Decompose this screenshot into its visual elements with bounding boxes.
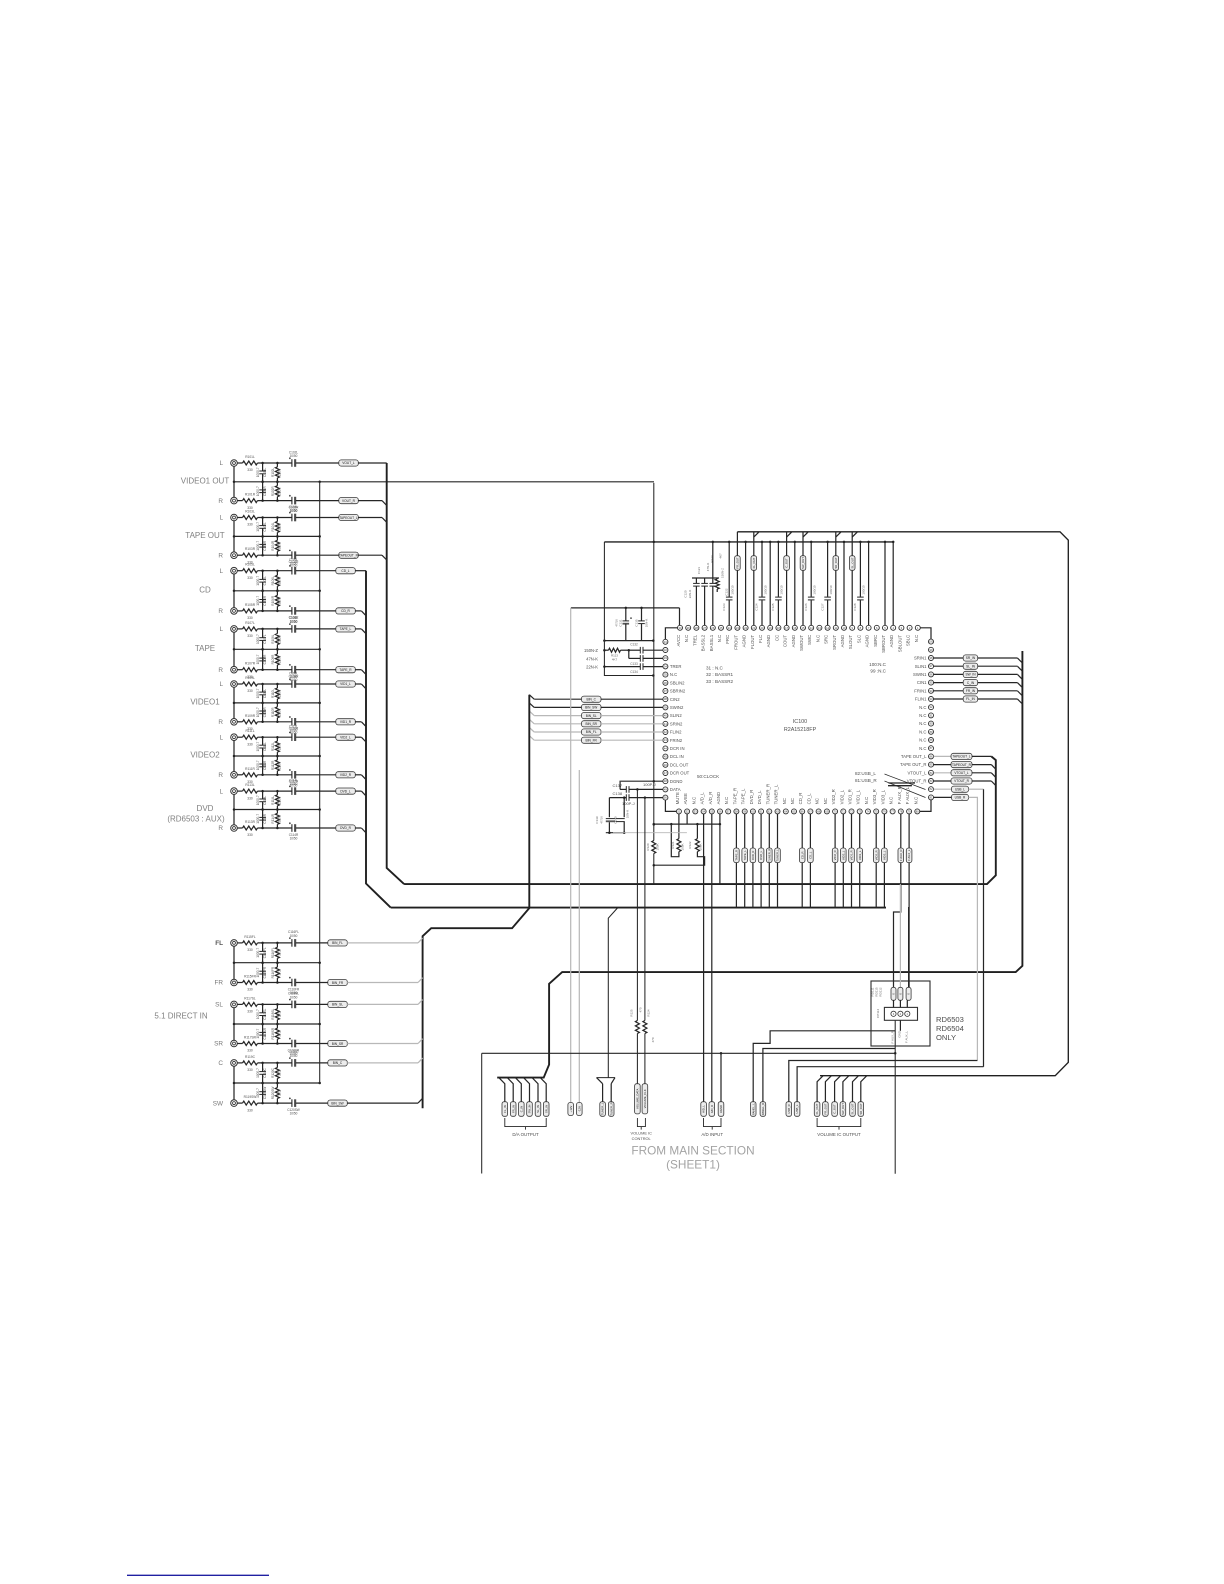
IC100 pin 2 (SBLC) — [906, 625, 913, 646]
wire bus hook IN1 row — [1018, 691, 1023, 696]
IC100 pin 98 (SRIN1) — [914, 656, 934, 661]
svg-text:FR_IN: FR_IN — [511, 1105, 515, 1113]
connector VIDEO2 L jack — [231, 725, 362, 758]
svg-text:330: 330 — [247, 689, 253, 693]
svg-text:R124: R124 — [647, 1009, 651, 1017]
svg-text:50:CLOCK: 50:CLOCK — [697, 774, 720, 779]
svg-text:C135: C135 — [634, 619, 638, 627]
svg-text:76: 76 — [883, 809, 886, 813]
svg-text:330: 330 — [247, 796, 253, 800]
IC100 pin 27 (BASSL2) — [701, 625, 708, 651]
svg-text:R: R — [218, 608, 223, 615]
svg-text:C114R: C114R — [289, 833, 299, 837]
IC100 pin 35 (N.C) — [663, 672, 677, 677]
leader line pin81 note — [885, 781, 926, 798]
svg-text:330: 330 — [247, 1108, 253, 1112]
svg-text:F AUX_R: F AUX_R — [897, 786, 902, 804]
svg-text:R104R: R104R — [271, 540, 275, 551]
svg-text:PANEL_R: PANEL_R — [761, 1103, 765, 1116]
IC100 pin 82 (n/a) — [929, 787, 934, 792]
svg-text:TREL: TREL — [692, 634, 697, 646]
svg-text:1000-7: 1000-7 — [256, 1009, 260, 1019]
IC100 pin 83 (VTOUT_R) — [907, 779, 934, 784]
capacitor C138 100P-J — [609, 791, 662, 806]
wire/net label BIN_SW to pin 39 — [529, 703, 663, 711]
svg-text:79: 79 — [908, 809, 911, 813]
ground box around left caps — [604, 542, 654, 677]
svg-text:74: 74 — [867, 809, 870, 813]
svg-text:AGND: AGND — [865, 635, 870, 648]
net label USB_R bottom — [786, 1061, 977, 1117]
svg-text:93: 93 — [930, 697, 933, 701]
svg-text:TAPEOUT_L: TAPEOUT_L — [339, 516, 358, 520]
svg-text:22N-K: 22N-K — [586, 665, 598, 670]
svg-text:R118SR: R118SR — [271, 1027, 275, 1039]
svg-text:100K: 100K — [680, 843, 684, 850]
svg-text:88: 88 — [930, 738, 933, 742]
svg-text:330: 330 — [247, 1010, 253, 1014]
svg-text:FROUT: FROUT — [733, 634, 738, 649]
svg-text:10/50: 10/50 — [290, 934, 298, 938]
svg-text:98: 98 — [930, 656, 933, 660]
group label 5.1 DIRECT IN — [154, 1012, 207, 1021]
svg-text:CD_L: CD_L — [806, 793, 811, 805]
svg-text:N.C: N.C — [889, 797, 894, 804]
svg-text:C117SL: C117SL — [263, 1008, 267, 1019]
svg-text:VOUT_R: VOUT_R — [342, 499, 356, 503]
svg-text:R101L: R101L — [245, 455, 255, 459]
svg-text:CD_L: CD_L — [341, 569, 349, 573]
svg-text:C103R: C103R — [263, 540, 267, 551]
svg-text:220K: 220K — [278, 541, 282, 549]
input group TAPE OUT — [185, 515, 225, 560]
svg-text:330: 330 — [247, 742, 253, 746]
connector VIDEO1 R jack — [231, 702, 362, 735]
wire bus hook 5.1 row — [418, 978, 423, 983]
wire bus hook VTOUT_R right — [991, 781, 996, 786]
svg-text:60: 60 — [751, 809, 754, 813]
wire VIDEO1 OUT jack sleeve link — [233, 466, 236, 497]
svg-text:99 :N.C: 99 :N.C — [870, 669, 886, 674]
svg-text:C120SW: C120SW — [287, 1108, 300, 1112]
svg-text:NC: NC — [815, 798, 820, 804]
IC100 pin 59 (TAPE_L) — [741, 788, 748, 814]
wire bus hook OUT pin — [787, 532, 792, 537]
IC100 pin 9 (SLOUT) — [848, 625, 855, 649]
svg-text:FL_IN: FL_IN — [966, 697, 975, 701]
svg-text:VID2_L: VID2_L — [340, 736, 351, 740]
svg-text:R105R: R105R — [245, 603, 256, 607]
resistor R122 100K — [653, 824, 705, 866]
svg-text:C125: C125 — [771, 603, 775, 611]
svg-text:54: 54 — [702, 809, 705, 813]
wire bus hook IN1 row — [1018, 699, 1023, 704]
svg-text:R115FR: R115FR — [244, 975, 257, 979]
svg-text:SLC: SLC — [856, 635, 861, 643]
net label SR_OUT (VOLUME IC OUTPUT) — [858, 1076, 867, 1117]
svg-text:N.C: N.C — [919, 721, 926, 726]
svg-text:1000-7: 1000-7 — [256, 654, 260, 664]
wire C137 corner — [619, 781, 622, 789]
svg-text:USB_R: USB_R — [955, 796, 966, 800]
net label VID2_R below IC — [832, 814, 838, 908]
net label SW_OUT (VOLUME IC OUTPUT) — [840, 1076, 849, 1117]
IC100 pin 24 (FRC) — [725, 625, 732, 643]
IC100 pin 74 (N.C) — [864, 797, 871, 814]
net label SL_OUT — [849, 556, 855, 571]
resistor R121 100K — [671, 824, 685, 857]
svg-text:RD6503: RD6503 — [936, 1015, 964, 1024]
svg-text:32: 32 — [664, 648, 667, 652]
wire AVCC net horizontal — [571, 607, 680, 626]
svg-text:VID3_L: VID3_L — [883, 850, 887, 860]
svg-text:L: L — [219, 515, 223, 522]
svg-text:SL: SL — [215, 1002, 223, 1009]
wire bus hook TAPEOUT_R — [382, 555, 387, 560]
svg-text:TAPE: TAPE — [195, 644, 215, 653]
IC100 pin 56 (AGND) — [716, 792, 723, 814]
svg-text:18: 18 — [777, 626, 780, 630]
svg-text:R106L: R106L — [271, 576, 275, 586]
svg-text:CIN2: CIN2 — [670, 697, 680, 702]
svg-text:62: 62 — [768, 809, 771, 813]
svg-text:81: 81 — [930, 795, 933, 799]
connector VIDEO1 L jack — [231, 671, 362, 704]
IC100 pin 11 (SROUT) — [832, 625, 839, 650]
IC100 pin 3 (SBLOUT) — [897, 625, 904, 652]
net label SR_IN right of IC — [934, 655, 1018, 661]
svg-text:58: 58 — [735, 809, 738, 813]
wire F AUX_L into jumper — [908, 907, 910, 987]
net label SL_OUT (VOLUME IC OUTPUT) — [850, 1076, 859, 1117]
svg-text:VOLUME_CLK: VOLUME_CLK — [643, 1089, 647, 1108]
text RD6503 RD6504 ONLY — [936, 1015, 964, 1042]
svg-text:R111L: R111L — [245, 729, 254, 733]
svg-text:FL_OUT: FL_OUT — [752, 557, 756, 568]
svg-text:N.C: N.C — [684, 635, 689, 642]
wire VOLUME CLOCK line — [644, 798, 646, 1084]
svg-text:BIN_SR: BIN_SR — [332, 1042, 344, 1046]
svg-text:R: R — [218, 719, 223, 726]
wire bus hook OUT pin — [803, 532, 808, 537]
IC100 pin 19 (AGND) — [766, 625, 773, 647]
svg-text:R108R: R108R — [271, 654, 275, 665]
svg-text:2K2: 2K2 — [278, 1070, 282, 1076]
svg-text:C117SR: C117SR — [263, 1027, 267, 1039]
svg-text:1000-7: 1000-7 — [256, 760, 260, 770]
op-amp IC100 body corner bottom-left — [665, 800, 676, 811]
leader line pin82 note — [885, 774, 926, 790]
svg-text:DVD_L: DVD_L — [759, 850, 763, 859]
svg-text:FL: FL — [215, 940, 223, 947]
svg-text:SL_OUT: SL_OUT — [851, 1103, 855, 1114]
svg-text:DVD_L: DVD_L — [757, 790, 762, 805]
wire CD jack sleeve link — [233, 574, 236, 608]
svg-text:R: R — [218, 552, 223, 559]
svg-text:100P-J: 100P-J — [643, 782, 656, 787]
wire AGND pin stub — [769, 541, 772, 626]
capacitor C128 100/10 — [853, 541, 866, 626]
svg-text:10: 10 — [843, 626, 846, 630]
wire bus hook TAPEOUT_R right — [991, 765, 996, 770]
svg-text:470: 470 — [639, 1007, 643, 1012]
svg-text:C: C — [218, 1060, 223, 1067]
wire TAPE OUT ground mid line — [234, 535, 321, 538]
svg-text:C107R: C107R — [263, 654, 267, 665]
svg-text:NC: NC — [790, 798, 795, 804]
bracket D/A OUTPUT — [505, 1118, 546, 1137]
svg-text:R117SR: R117SR — [244, 1036, 257, 1040]
svg-text:59: 59 — [743, 809, 746, 813]
svg-text:R101R: R101R — [245, 493, 256, 497]
IC100 pin 51 (MUTE) — [675, 792, 682, 814]
wire FL_OUT from pin to bus — [753, 532, 755, 625]
svg-text:TAPE OUT_R: TAPE OUT_R — [900, 762, 926, 767]
svg-text:SR_IN: SR_IN — [544, 1105, 548, 1113]
svg-text:C103L: C103L — [263, 522, 267, 532]
net label TUNER_R below IC — [767, 814, 773, 908]
svg-text:24: 24 — [728, 626, 731, 630]
IC100 pin 30 (AVCC) — [676, 625, 683, 646]
connector TAPE OUT R jack — [231, 535, 382, 568]
svg-text:4K7: 4K7 — [719, 553, 723, 559]
svg-text:VID1_L: VID1_L — [340, 682, 351, 686]
capacitor C132 — [629, 643, 663, 654]
wire AGND tie below IC — [653, 823, 722, 826]
svg-text:C115FR: C115FR — [263, 966, 267, 978]
svg-text:R109L: R109L — [245, 676, 255, 680]
svg-text:47N-K: 47N-K — [706, 563, 710, 572]
svg-text:C109R: C109R — [263, 707, 267, 718]
svg-text:N.C: N.C — [919, 729, 926, 734]
capacitor C133 — [629, 650, 663, 666]
net label SR_IN (D/A OUTPUT) — [540, 1078, 549, 1117]
wire AGND pin stub — [892, 541, 895, 626]
svg-text:1000-7: 1000-7 — [256, 967, 260, 977]
net label SW_IN right of IC — [934, 671, 1018, 677]
IC100 pin 41 (SRIN2) — [663, 721, 683, 726]
svg-text:40: 40 — [664, 714, 667, 718]
svg-text:39: 39 — [664, 705, 667, 709]
svg-text:VID2_R: VID2_R — [831, 789, 836, 804]
svg-text:C123: C123 — [722, 603, 726, 611]
svg-text:16: 16 — [793, 626, 796, 630]
svg-text:R116FL: R116FL — [271, 947, 275, 958]
svg-text:FLC: FLC — [758, 635, 763, 643]
wire bus hook 5.1 row — [418, 1098, 423, 1103]
svg-text:C132: C132 — [630, 643, 638, 647]
svg-text:1000-7: 1000-7 — [256, 467, 260, 477]
svg-text:330: 330 — [247, 1068, 253, 1072]
svg-text:R112R: R112R — [271, 760, 275, 770]
svg-text:75: 75 — [875, 809, 878, 813]
net label VTOUT_L right of IC — [934, 770, 992, 776]
net label PANEL_L — [750, 1031, 895, 1116]
svg-text:(SHEET1): (SHEET1) — [666, 1158, 720, 1172]
svg-text:FL_OUT: FL_OUT — [815, 1103, 819, 1114]
svg-text:43: 43 — [664, 738, 667, 742]
svg-text:DCR IN: DCR IN — [670, 746, 685, 751]
svg-text:25: 25 — [720, 626, 723, 630]
svg-text:VID3_R: VID3_R — [874, 850, 878, 860]
svg-text:C126: C126 — [804, 603, 808, 611]
IC100 pin 16 (AGND) — [791, 625, 798, 647]
svg-text:SBROUT: SBROUT — [881, 634, 886, 652]
IC100 pin 20 (FLC) — [758, 625, 765, 643]
net label A/D_L — [701, 1102, 707, 1117]
IC100 pin 25 (N.C) — [717, 625, 724, 642]
svg-text:VIDEO1 OUT: VIDEO1 OUT — [181, 476, 230, 485]
IC100 pin 6 (SBRC) — [873, 625, 880, 647]
svg-text:C138: C138 — [613, 791, 623, 796]
svg-text:82:USB_L: 82:USB_L — [855, 771, 876, 776]
svg-text:220K: 220K — [278, 468, 282, 476]
svg-text:150N-Z: 150N-Z — [720, 568, 724, 578]
svg-text:45: 45 — [664, 755, 667, 759]
svg-text:DVD_L: DVD_L — [340, 789, 351, 793]
svg-text:20: 20 — [761, 626, 764, 630]
wire 5.1 SL/SR jack sleeve link — [233, 1008, 236, 1040]
svg-text:-12V: -12V — [577, 1106, 581, 1112]
IC100 pin 43 (FRIN2) — [663, 738, 683, 743]
svg-text:96: 96 — [930, 672, 933, 676]
svg-text:82: 82 — [930, 787, 933, 791]
net label F AUX_R below IC — [894, 814, 904, 987]
svg-text:30: 30 — [679, 626, 682, 630]
svg-text:C131: C131 — [619, 619, 623, 627]
svg-text:44: 44 — [664, 746, 667, 750]
net label TUNER_R — [608, 1078, 615, 1117]
svg-text:SR: SR — [214, 1041, 223, 1048]
wire bus hook input row — [361, 670, 366, 675]
svg-text:TAPEOUT_R: TAPEOUT_R — [339, 554, 359, 558]
svg-text:10/50: 10/50 — [290, 837, 298, 841]
wire AGND pin stub — [884, 541, 887, 626]
wire TUNER pair stem — [597, 908, 618, 1078]
svg-text:R107R: R107R — [245, 662, 256, 666]
svg-text:DATA: DATA — [670, 787, 681, 792]
svg-text:SWC: SWC — [807, 635, 812, 645]
svg-text:C122: C122 — [725, 588, 729, 596]
svg-text:19: 19 — [769, 626, 772, 630]
svg-text:100/10: 100/10 — [862, 585, 866, 595]
wire bus hook input row — [361, 722, 366, 727]
svg-text:220K: 220K — [278, 742, 282, 750]
svg-text:A/D_R: A/D_R — [708, 792, 713, 805]
IC100 pin 33 (n/a) — [663, 656, 668, 661]
wire pin51 MUTE down — [678, 814, 680, 839]
IC100 pin 14 (SWC) — [807, 625, 814, 645]
capacitor C140 10N-K — [614, 796, 630, 832]
IC100 pin 23 (FROUT) — [733, 625, 740, 649]
svg-text:A/D_R: A/D_R — [710, 1105, 714, 1113]
wire C131/C135 ground tie — [603, 639, 654, 642]
capacitor C137 100P-J — [613, 782, 663, 793]
svg-text:28: 28 — [695, 626, 698, 630]
svg-text:100/10: 100/10 — [780, 585, 784, 595]
svg-text:10/50: 10/50 — [290, 509, 298, 513]
net label DVD_L below IC — [758, 814, 764, 908]
svg-text:C134: C134 — [630, 670, 638, 674]
wire bus 5.1 vertical — [423, 908, 530, 1109]
svg-text:DGND: DGND — [670, 779, 683, 784]
op-amp IC100 body corner bottom-right — [920, 800, 931, 811]
svg-text:1000-7: 1000-7 — [256, 486, 260, 496]
svg-text:330: 330 — [247, 988, 253, 992]
svg-text:BIN_FL: BIN_FL — [332, 941, 343, 945]
svg-text:52: 52 — [686, 809, 689, 813]
svg-text:R120SW: R120SW — [271, 1087, 275, 1100]
net label FR_IN (D/A OUTPUT) — [507, 1078, 516, 1117]
svg-text:FRIN1: FRIN1 — [914, 688, 927, 693]
net label TUNER_L — [597, 1078, 606, 1117]
IC100 pin 45 (DCL IN) — [663, 754, 684, 759]
svg-text:BIN_C: BIN_C — [333, 1061, 343, 1065]
svg-text:BIN_SR: BIN_SR — [585, 722, 597, 726]
IC100 pin 55 (A/D_R) — [708, 792, 715, 814]
svg-text:TUNER_R: TUNER_R — [609, 1102, 613, 1115]
svg-text:SWIN2: SWIN2 — [670, 705, 684, 710]
svg-text:GND: GND — [897, 1030, 901, 1038]
svg-text:L: L — [219, 626, 223, 633]
svg-text:11: 11 — [834, 626, 837, 630]
svg-text:48: 48 — [664, 779, 667, 783]
svg-text:1000-7: 1000-7 — [256, 596, 260, 606]
capacitor C127 100/10 — [820, 541, 833, 626]
svg-text:VOUT_L: VOUT_L — [342, 461, 355, 465]
IC100 pin 32 (n/a) — [663, 648, 668, 653]
net label SL_IN (D/A OUTPUT) — [532, 1078, 541, 1117]
wire SL_OUT from pin to bus — [851, 532, 853, 625]
wire 5.1 SL/SR ground mid line — [234, 1023, 321, 1026]
net label USB_R right of IC — [934, 794, 978, 1060]
IC100 pin 5 (SBROUT) — [881, 625, 888, 653]
IC100 pin 80 (N.C) — [913, 797, 920, 814]
wire bus hook OUT pin — [754, 532, 759, 537]
svg-text:CC: CC — [774, 635, 779, 641]
net label C_OUT — [784, 556, 790, 571]
net label SL_IN right of IC — [934, 663, 1018, 669]
svg-text:C107L: C107L — [263, 634, 267, 644]
svg-text:31: 31 — [664, 640, 667, 644]
svg-text:BASSL2: BASSL2 — [701, 634, 706, 651]
wire pin52 AVEE down — [686, 814, 688, 824]
svg-text:AGND: AGND — [716, 792, 721, 805]
svg-text:21: 21 — [752, 626, 755, 630]
svg-text:220K: 220K — [278, 708, 282, 716]
svg-text:220K: 220K — [278, 655, 282, 663]
svg-text:SL_IN: SL_IN — [536, 1105, 540, 1113]
svg-text:DCR OUT: DCR OUT — [670, 771, 690, 776]
svg-text:100/10: 100/10 — [763, 585, 767, 595]
svg-text:5.1 DIRECT IN: 5.1 DIRECT IN — [154, 1012, 207, 1021]
net label PANEL_R — [760, 1049, 895, 1117]
svg-text:FR_OUT: FR_OUT — [824, 1103, 828, 1114]
svg-text:31 : N.C: 31 : N.C — [706, 666, 724, 671]
svg-text:R105L: R105L — [245, 563, 255, 567]
IC100 pin 77 (N.C) — [889, 797, 896, 814]
svg-text:VID1_R: VID1_R — [340, 720, 352, 724]
svg-text:1000-7: 1000-7 — [256, 948, 260, 958]
svg-text:69: 69 — [825, 809, 828, 813]
wire VIDEO1 ground mid line — [234, 702, 321, 705]
capacitor C131 47/16 — [615, 608, 632, 641]
svg-text:TUNER_R: TUNER_R — [767, 849, 771, 862]
IC100 pin 87 (N.C) — [919, 746, 933, 751]
svg-text:C109L: C109L — [263, 689, 267, 699]
svg-text:10/50: 10/50 — [290, 782, 298, 786]
net label VID3_L below IC — [882, 814, 888, 908]
